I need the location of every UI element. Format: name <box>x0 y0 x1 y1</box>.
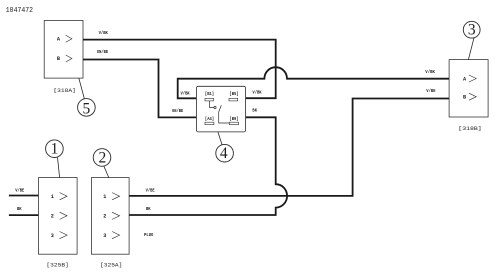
svg-text:BK: BK <box>252 108 257 114</box>
svg-text:[A4]: [A4] <box>205 116 214 122</box>
connector [318A] <box>44 21 83 79</box>
svg-text:[B9]: [B9] <box>229 116 238 122</box>
relay pin box [B5] <box>229 98 238 101</box>
svg-text:2: 2 <box>99 149 107 166</box>
svg-text:V/BK: V/BK <box>181 91 190 97</box>
connector [318B] <box>449 60 488 117</box>
svg-text:1: 1 <box>103 194 106 200</box>
callout 2 circle <box>93 149 111 167</box>
svg-text:[325B]: [325B] <box>46 262 68 269</box>
callout 3 circle <box>463 21 480 38</box>
wire V/BK from [318A] pin A down to relay pin B5 <box>83 40 276 99</box>
svg-text:3: 3 <box>103 233 106 239</box>
callout 3 leader <box>468 38 474 60</box>
wire BK from relay pin B9 down to [325A] pin 2 with hop over horizontal wire <box>129 117 287 215</box>
svg-text:BK: BK <box>17 206 22 212</box>
callout 5 leader <box>79 78 85 99</box>
relay coil actuator line from pin B1 <box>210 101 214 108</box>
svg-text:5: 5 <box>83 100 91 117</box>
svg-text:2: 2 <box>51 214 54 220</box>
svg-text:1: 1 <box>51 194 54 200</box>
svg-text:4: 4 <box>220 145 228 162</box>
relay pin box [A4] <box>205 122 214 125</box>
svg-text:V/BE: V/BE <box>15 188 24 194</box>
callout 4 circle <box>216 144 234 162</box>
wire V/BE from [325A] pin 1 to [318B] pin B <box>129 99 449 196</box>
connector [325A] <box>91 178 129 255</box>
svg-text:BK: BK <box>146 206 151 212</box>
svg-text:[B1]: [B1] <box>205 91 214 97</box>
callout 5 circle <box>78 99 96 117</box>
svg-text:B: B <box>57 56 60 62</box>
svg-text:V/BE: V/BE <box>146 188 155 194</box>
relay pin box [B9] <box>229 122 238 125</box>
svg-text:3: 3 <box>51 233 54 239</box>
svg-text:V/BK: V/BK <box>252 90 261 96</box>
svg-text:[B5]: [B5] <box>229 91 238 97</box>
relay pin box [B1] <box>205 98 214 101</box>
wire stub BK into [325B] pin 2 <box>9 214 39 216</box>
svg-text:B: B <box>463 95 466 101</box>
svg-text:V/BE: V/BE <box>426 88 435 94</box>
svg-text:[318B]: [318B] <box>458 125 481 132</box>
svg-text:1: 1 <box>51 141 59 158</box>
callout 1 circle <box>46 140 64 158</box>
svg-text:GN/BE: GN/BE <box>97 49 108 55</box>
connector [325B] <box>39 178 78 255</box>
wire stub V/BE into [325B] pin 1 <box>9 195 39 197</box>
svg-text:[325A]: [325A] <box>100 262 122 269</box>
svg-text:V/BK: V/BK <box>99 30 108 36</box>
svg-text:GN/BE: GN/BE <box>172 108 183 114</box>
callout 1 leader <box>58 157 60 177</box>
wire GN/BE from [318A] pin B to relay pin A4 <box>83 60 196 118</box>
svg-text:1047472: 1047472 <box>6 7 33 15</box>
relay actuator contact circle <box>214 106 216 108</box>
relay switch blade and contact to pin B9 <box>219 105 230 123</box>
relay box U4 <box>196 86 245 132</box>
svg-text:3: 3 <box>468 22 476 39</box>
svg-text:V/BK: V/BK <box>425 69 435 75</box>
callout 2 leader <box>104 166 109 177</box>
callout 4 leader <box>218 132 222 145</box>
wire V/BK from relay pin B1 to [318B] pin A with hop over vertical wire <box>178 67 449 98</box>
svg-text:[318A]: [318A] <box>53 87 75 94</box>
svg-text:PLUG: PLUG <box>144 232 154 238</box>
svg-text:2: 2 <box>103 214 106 220</box>
